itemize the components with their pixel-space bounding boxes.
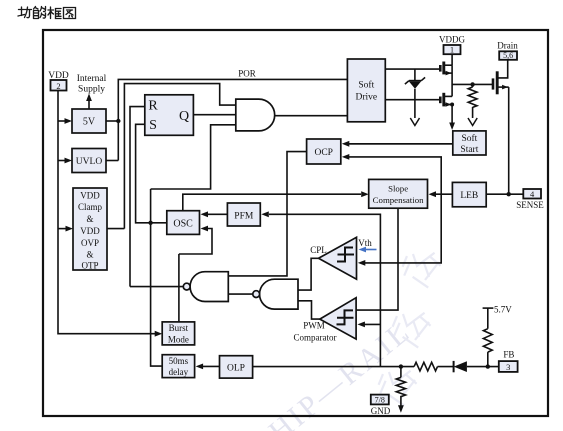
svg-text:UVLO: UVLO — [76, 157, 103, 167]
svg-text:Mode: Mode — [168, 334, 189, 344]
svg-text:OTP: OTP — [81, 261, 98, 271]
svg-text:5,6: 5,6 — [503, 51, 513, 60]
svg-text:PWM: PWM — [303, 321, 325, 331]
svg-text:OVP: OVP — [81, 238, 99, 248]
svg-text:VDD: VDD — [48, 71, 69, 81]
svg-text:&: & — [86, 214, 93, 224]
svg-text:SENSE: SENSE — [516, 200, 544, 210]
svg-text:OLP: OLP — [227, 364, 245, 374]
svg-text:Slope: Slope — [388, 183, 408, 193]
svg-text:Vth: Vth — [358, 238, 372, 248]
svg-text:LEB: LEB — [460, 191, 478, 201]
svg-text:3: 3 — [506, 362, 510, 372]
svg-text:5.7V: 5.7V — [494, 305, 512, 315]
svg-text:7/8: 7/8 — [375, 396, 385, 405]
svg-text:R: R — [148, 99, 158, 114]
svg-text:Comparator: Comparator — [294, 333, 337, 343]
svg-text:&: & — [86, 250, 93, 260]
svg-text:Internal: Internal — [77, 74, 107, 84]
svg-text:Drive: Drive — [355, 93, 377, 103]
svg-text:FB: FB — [503, 350, 514, 360]
svg-text:Burst: Burst — [169, 323, 189, 333]
svg-text:OCP: OCP — [314, 148, 332, 158]
svg-text:OSC: OSC — [173, 219, 193, 230]
svg-text:S: S — [149, 118, 157, 133]
svg-text:POR: POR — [238, 69, 256, 79]
svg-text:GND: GND — [371, 406, 391, 416]
svg-text:50ms: 50ms — [169, 356, 189, 366]
svg-text:4: 4 — [530, 189, 535, 199]
svg-text:Compensation: Compensation — [373, 195, 424, 205]
svg-text:VDD: VDD — [80, 226, 100, 236]
svg-text:VDD: VDD — [80, 191, 100, 201]
svg-text:Supply: Supply — [78, 85, 105, 95]
svg-text:Start: Start — [460, 145, 478, 155]
svg-text:Clamp: Clamp — [78, 202, 102, 212]
svg-text:Drain: Drain — [497, 41, 518, 51]
svg-text:VDDG: VDDG — [439, 35, 465, 45]
svg-text:Soft: Soft — [461, 133, 477, 144]
svg-text:CPL: CPL — [310, 245, 327, 255]
svg-text:2: 2 — [56, 81, 60, 91]
svg-text:5V: 5V — [83, 117, 96, 128]
svg-text:1: 1 — [450, 45, 454, 55]
svg-text:Q: Q — [179, 109, 189, 124]
svg-text:delay: delay — [169, 367, 189, 377]
svg-text:Soft: Soft — [358, 80, 374, 91]
svg-text:PFM: PFM — [234, 211, 254, 221]
